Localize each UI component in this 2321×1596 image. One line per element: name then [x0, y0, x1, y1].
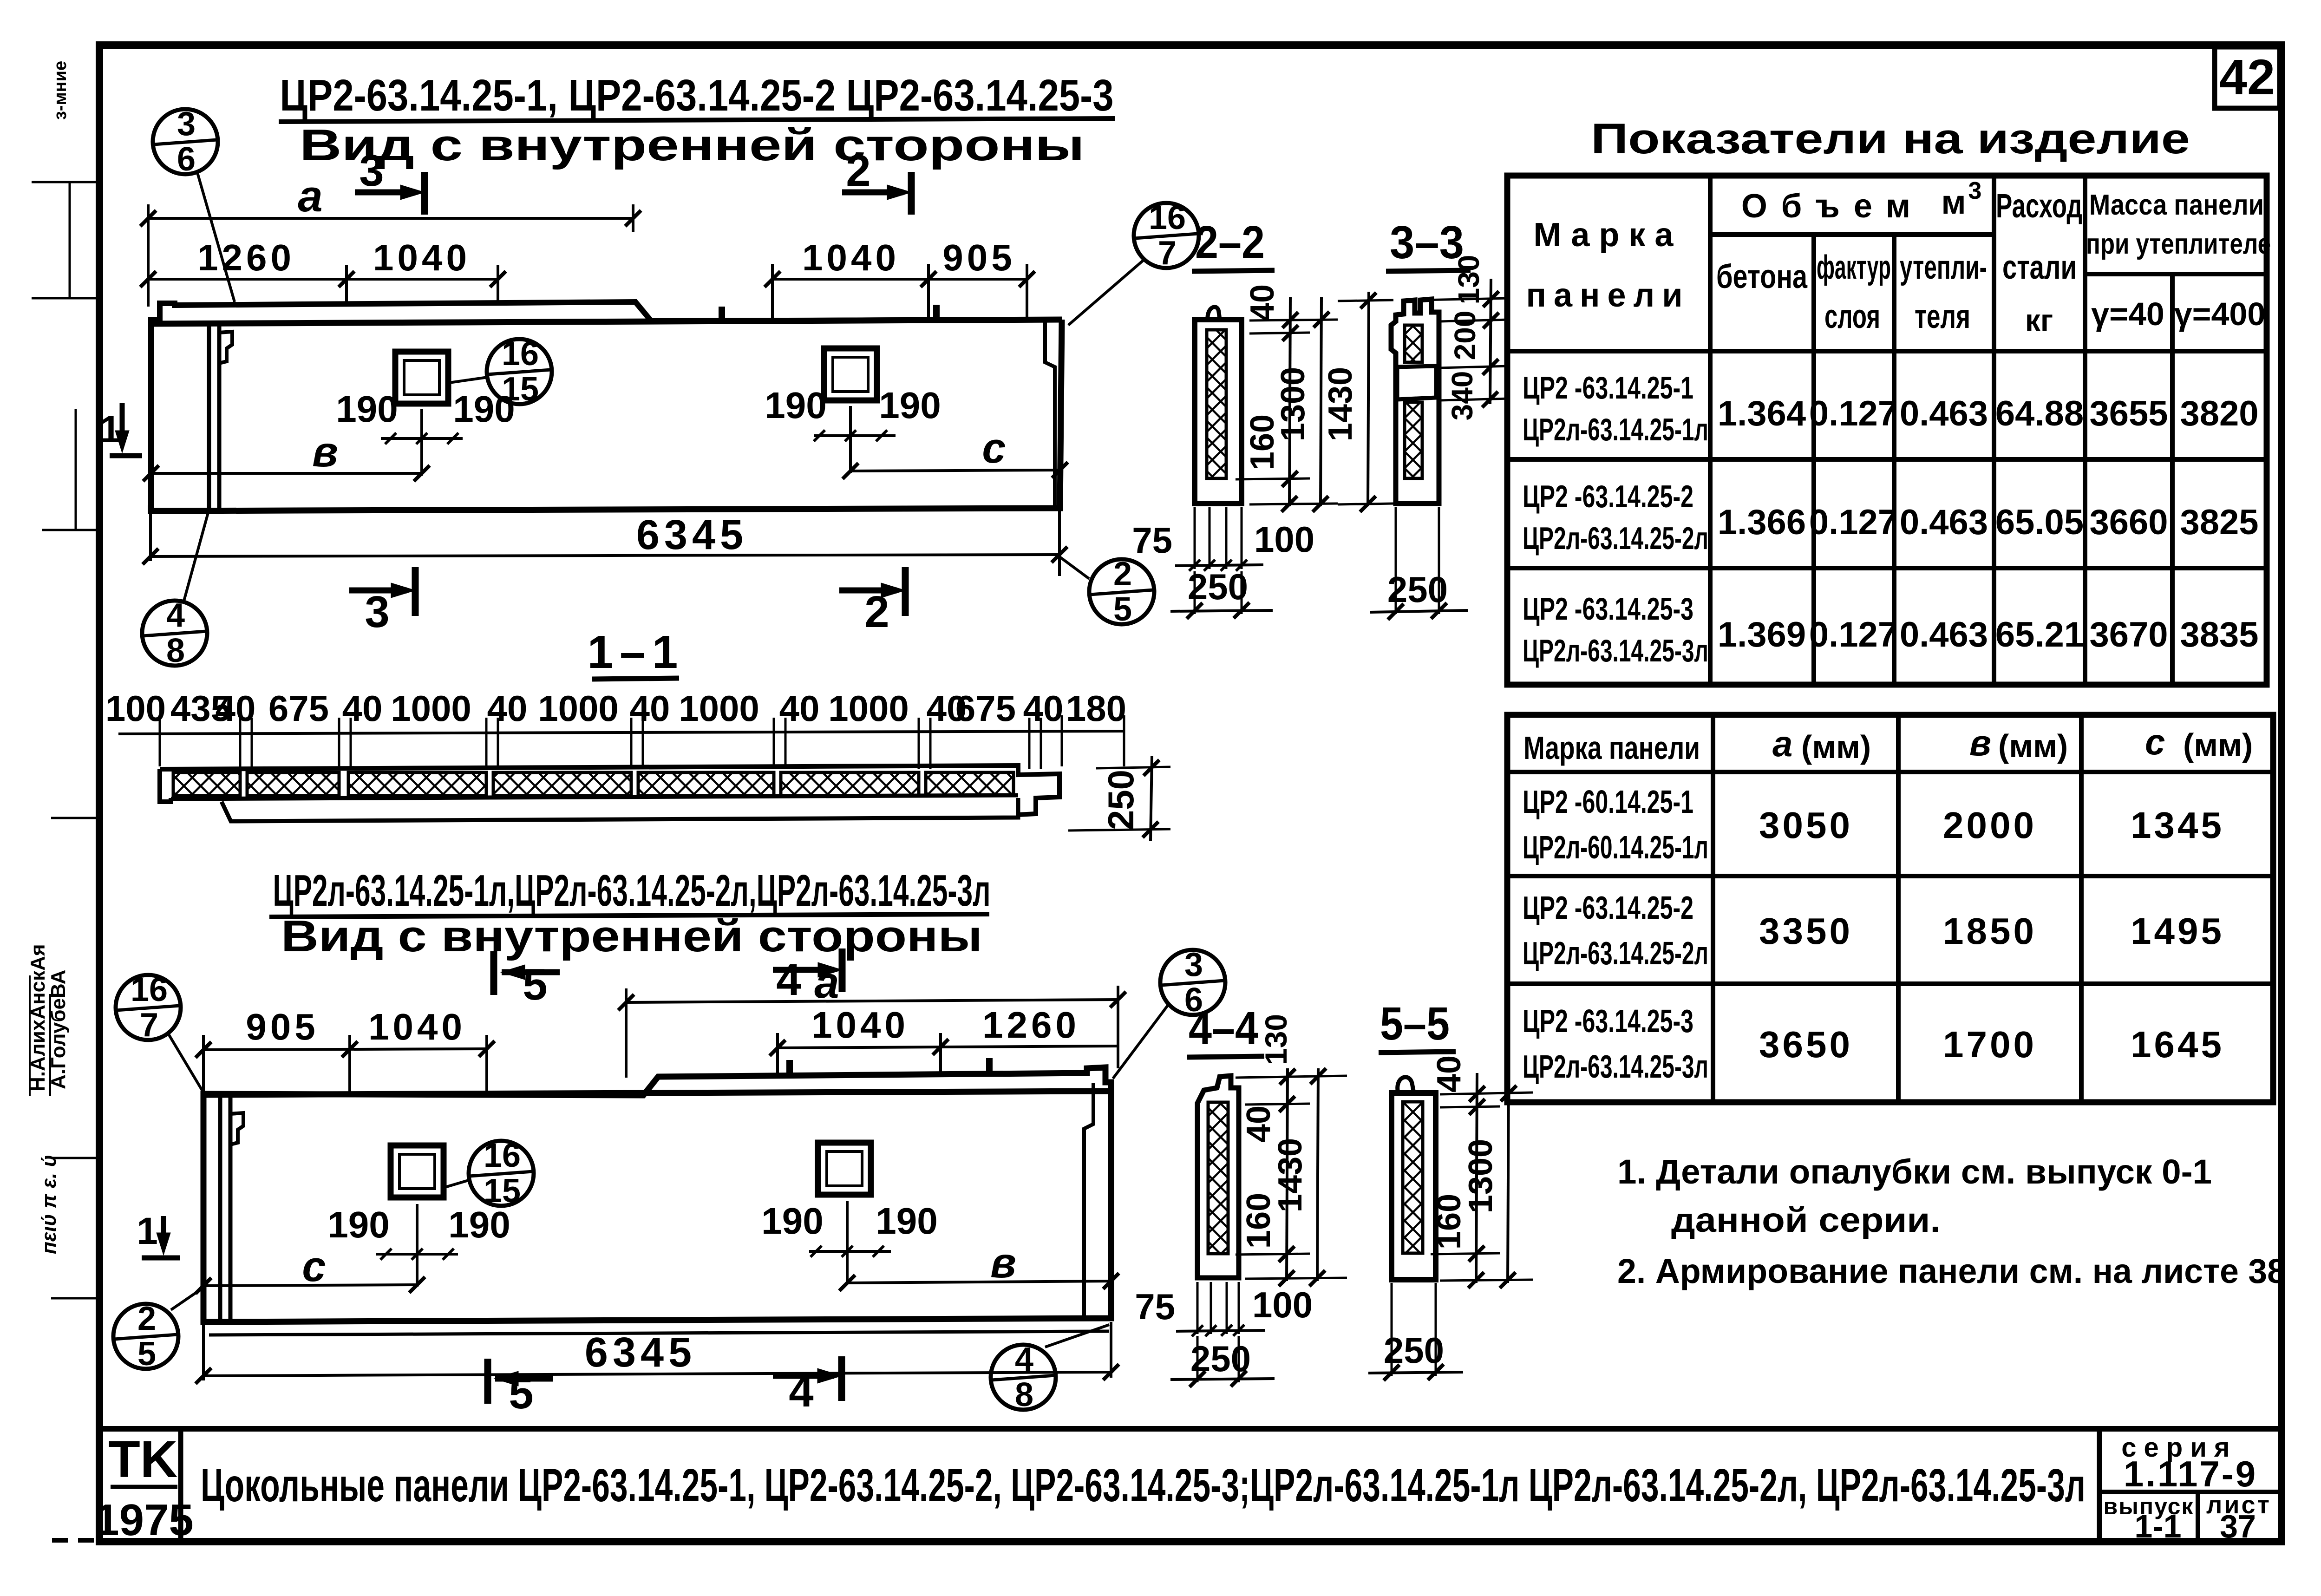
svg-text:1430: 1430: [1322, 367, 1359, 441]
svg-text:1975: 1975: [94, 1495, 194, 1545]
svg-text:2000: 2000: [1943, 805, 2037, 846]
svg-text:1.366: 1.366: [1718, 503, 1806, 542]
svg-text:ЦР2л-63.14.25-3л: ЦР2л-63.14.25-3л: [1523, 633, 1708, 668]
svg-text:40: 40: [1431, 1055, 1468, 1092]
svg-text:6: 6: [177, 141, 196, 178]
svg-text:1040: 1040: [373, 237, 471, 278]
svg-text:1300: 1300: [1462, 1139, 1499, 1213]
svg-text:75: 75: [1132, 520, 1172, 561]
svg-text:1040: 1040: [368, 1006, 466, 1047]
svg-text:бетона: бетона: [1716, 258, 1808, 295]
svg-text:37: 37: [2220, 1508, 2256, 1544]
svg-text:1850: 1850: [1943, 910, 2037, 952]
svg-text:1345: 1345: [2131, 805, 2224, 846]
svg-text:1040: 1040: [802, 237, 900, 278]
svg-text:с: с: [302, 1243, 326, 1290]
svg-text:γ=40: γ=40: [2091, 296, 2164, 332]
svg-text:Цокольные панели ЦР2-63.14.25-: Цокольные панели ЦР2-63.14.25-1, ЦР2-63.…: [201, 1459, 2086, 1511]
svg-text:ЦР2 -63.14.25-2: ЦР2 -63.14.25-2: [1523, 890, 1693, 926]
svg-text:42: 42: [2219, 49, 2275, 105]
svg-text:100: 100: [1252, 1284, 1313, 1325]
svg-text:фактур: фактур: [1817, 249, 1891, 286]
svg-text:4: 4: [1015, 1341, 1033, 1378]
svg-text:м: м: [1941, 184, 1966, 221]
svg-text:3660: 3660: [2089, 503, 2168, 542]
svg-text:5: 5: [509, 1368, 533, 1418]
svg-text:100: 100: [105, 688, 166, 729]
svg-text:ЦР2 -63.14.25-2: ЦР2 -63.14.25-2: [1523, 479, 1693, 514]
svg-text:65.05: 65.05: [1995, 503, 2084, 542]
svg-text:1000: 1000: [391, 688, 471, 729]
svg-text:3: 3: [365, 587, 389, 637]
svg-text:250: 250: [1188, 566, 1248, 607]
svg-text:Вид с внутренней стороны: Вид с внутренней стороны: [281, 911, 982, 961]
svg-text:1430: 1430: [1272, 1138, 1309, 1212]
svg-text:Показатели на изделие: Показатели на изделие: [1591, 115, 2190, 163]
svg-text:теля: теля: [1915, 298, 1970, 335]
svg-text:Марка панели: Марка панели: [1523, 730, 1700, 766]
svg-text:ЦР2л-63.14.25-2л: ЦР2л-63.14.25-2л: [1523, 521, 1708, 556]
svg-text:4–4: 4–4: [1189, 1002, 1258, 1054]
svg-text:ЦР2л-63.14.25-1л,ЦР2л-63.14.25: ЦР2л-63.14.25-1л,ЦР2л-63.14.25-2л,ЦР2л-6…: [273, 866, 991, 916]
svg-text:(мм): (мм): [1801, 729, 1871, 765]
svg-text:a: a: [1772, 723, 1792, 764]
svg-text:2. Армирование панели см. на л: 2. Армирование панели см. на листе 38: [1617, 1252, 2286, 1290]
svg-text:16: 16: [484, 1137, 521, 1174]
svg-text:190: 190: [448, 1204, 510, 1245]
svg-text:65.21: 65.21: [1995, 615, 2084, 654]
svg-text:200: 200: [1448, 311, 1482, 360]
svg-text:2: 2: [864, 587, 889, 637]
svg-text:3: 3: [1968, 177, 1982, 204]
svg-text:0.463: 0.463: [1900, 503, 1988, 542]
svg-text:2: 2: [137, 1300, 156, 1337]
svg-text:3: 3: [359, 146, 384, 196]
svg-text:(мм): (мм): [1998, 728, 2068, 764]
svg-text:16: 16: [502, 335, 539, 373]
svg-text:0.127: 0.127: [1809, 394, 1897, 433]
svg-text:250: 250: [1387, 569, 1448, 610]
svg-text:3825: 3825: [2180, 503, 2258, 542]
svg-text:3655: 3655: [2089, 394, 2168, 433]
svg-text:пειύ π ε. ύ: пειύ π ε. ύ: [38, 1155, 60, 1254]
svg-text:1000: 1000: [828, 688, 909, 729]
svg-text:75: 75: [1135, 1286, 1175, 1327]
svg-text:1700: 1700: [1943, 1024, 2037, 1065]
svg-text:a: a: [814, 958, 839, 1007]
svg-text:Объем: Объем: [1741, 188, 1924, 225]
svg-text:1.369: 1.369: [1718, 615, 1806, 654]
svg-text:16: 16: [1149, 199, 1186, 236]
svg-text:TK: TK: [108, 1430, 177, 1488]
svg-text:Масса панели: Масса панели: [2089, 189, 2264, 221]
svg-text:панели: панели: [1526, 277, 1690, 314]
svg-text:675: 675: [268, 688, 329, 729]
svg-text:190: 190: [336, 388, 398, 430]
svg-text:905: 905: [942, 237, 1015, 278]
svg-text:0.127: 0.127: [1809, 615, 1897, 654]
svg-text:15: 15: [484, 1172, 521, 1210]
svg-text:190: 190: [876, 1200, 937, 1242]
svg-text:при утеплителе: при утеплителе: [2086, 228, 2271, 260]
svg-text:в: в: [312, 428, 338, 476]
svg-text:1–1: 1–1: [588, 626, 685, 678]
svg-text:190: 190: [327, 1204, 389, 1245]
svg-text:1040: 1040: [811, 1004, 909, 1046]
svg-text:5–5: 5–5: [1380, 998, 1450, 1050]
svg-text:Вид с внутренней стороны: Вид с внутренней стороны: [300, 120, 1085, 170]
svg-text:3: 3: [1184, 946, 1203, 983]
svg-text:1645: 1645: [2131, 1024, 2224, 1065]
svg-text:190: 190: [879, 385, 941, 426]
svg-text:1000: 1000: [538, 688, 619, 729]
svg-text:5: 5: [523, 960, 547, 1009]
svg-text:3: 3: [177, 105, 196, 143]
svg-text:3050: 3050: [1759, 805, 1853, 846]
svg-text:1: 1: [99, 408, 121, 451]
svg-text:γ=400: γ=400: [2174, 296, 2266, 332]
svg-text:0.463: 0.463: [1900, 394, 1988, 433]
svg-text:з-мние: з-мние: [51, 61, 70, 120]
svg-text:190: 190: [761, 1200, 823, 1242]
svg-text:8: 8: [1015, 1376, 1033, 1413]
svg-text:3350: 3350: [1759, 910, 1853, 952]
svg-text:ЦР2 -60.14.25-1: ЦР2 -60.14.25-1: [1523, 784, 1693, 820]
svg-text:кг: кг: [2025, 303, 2053, 337]
svg-text:130: 130: [1452, 255, 1485, 305]
svg-text:6345: 6345: [585, 1329, 696, 1376]
svg-text:1.364: 1.364: [1718, 394, 1806, 433]
svg-text:40: 40: [342, 688, 383, 729]
svg-text:5: 5: [137, 1335, 156, 1373]
svg-text:40: 40: [1240, 1105, 1277, 1143]
svg-text:905: 905: [246, 1006, 319, 1047]
svg-text:40: 40: [216, 688, 256, 729]
svg-text:250: 250: [1100, 770, 1141, 830]
svg-text:4: 4: [789, 1367, 813, 1416]
svg-text:1-1: 1-1: [2134, 1508, 2181, 1544]
svg-text:0.463: 0.463: [1900, 615, 1988, 654]
svg-text:15: 15: [502, 371, 539, 408]
svg-text:130: 130: [1259, 1014, 1293, 1065]
svg-text:ЦР2л-63.14.25-1л: ЦР2л-63.14.25-1л: [1523, 412, 1708, 447]
svg-text:190: 190: [765, 385, 826, 426]
svg-text:3650: 3650: [1759, 1024, 1853, 1065]
svg-text:40: 40: [630, 688, 670, 729]
svg-text:3670: 3670: [2089, 615, 2168, 654]
svg-text:64.88: 64.88: [1995, 394, 2084, 433]
svg-text:5: 5: [1113, 591, 1132, 628]
svg-text:40: 40: [1244, 284, 1281, 321]
svg-text:2: 2: [1113, 556, 1132, 593]
svg-text:7: 7: [1158, 235, 1177, 272]
svg-text:3835: 3835: [2180, 615, 2258, 654]
svg-text:ЦР2л-63.14.25-3л: ЦР2л-63.14.25-3л: [1523, 1048, 1708, 1085]
svg-text:1.117-9: 1.117-9: [2124, 1453, 2257, 1494]
svg-text:7: 7: [140, 1007, 158, 1044]
svg-text:0.127: 0.127: [1809, 503, 1897, 542]
svg-text:1260: 1260: [197, 237, 295, 278]
svg-text:675: 675: [955, 688, 1016, 729]
svg-text:4: 4: [776, 955, 801, 1005]
svg-text:340: 340: [1445, 371, 1479, 421]
svg-text:1000: 1000: [679, 688, 759, 729]
svg-text:1: 1: [137, 1210, 158, 1252]
svg-text:ЦР2л-63.14.25-2л: ЦР2л-63.14.25-2л: [1523, 935, 1708, 971]
svg-text:2: 2: [846, 146, 870, 196]
svg-text:180: 180: [1066, 688, 1126, 729]
svg-text:ЦР2 -63.14.25-3: ЦР2 -63.14.25-3: [1523, 1003, 1693, 1039]
svg-text:3820: 3820: [2180, 394, 2258, 433]
svg-text:ЦР2-63.14.25-1, ЦР2-63.14.25-2: ЦР2-63.14.25-1, ЦР2-63.14.25-2 ЦР2-63.14…: [280, 71, 1114, 120]
svg-text:1. Детали опалубки см. выпуск: 1. Детали опалубки см. выпуск 0-1: [1617, 1152, 2212, 1191]
svg-text:данной серии.: данной серии.: [1671, 1201, 1941, 1239]
svg-text:ЦР2 -63.14.25-1: ЦР2 -63.14.25-1: [1523, 370, 1693, 406]
svg-text:Марка: Марка: [1534, 216, 1683, 254]
svg-text:1300: 1300: [1275, 367, 1312, 441]
svg-text:утепли-: утепли-: [1900, 249, 1987, 286]
svg-text:ЦР2 -63.14.25-3: ЦР2 -63.14.25-3: [1523, 591, 1693, 627]
svg-text:16: 16: [131, 971, 168, 1008]
svg-text:с: с: [982, 425, 1006, 472]
svg-text:100: 100: [1254, 519, 1314, 560]
svg-text:Расход: Расход: [1996, 188, 2082, 225]
svg-text:8: 8: [166, 632, 185, 669]
svg-text:6345: 6345: [636, 512, 748, 558]
svg-text:1260: 1260: [982, 1004, 1080, 1046]
svg-text:в: в: [1969, 722, 1991, 763]
svg-text:слоя: слоя: [1824, 298, 1880, 335]
svg-text:250: 250: [1384, 1330, 1444, 1371]
svg-text:4: 4: [166, 597, 185, 634]
svg-text:a: a: [298, 171, 322, 221]
svg-text:1495: 1495: [2131, 910, 2224, 952]
svg-text:2–2: 2–2: [1195, 216, 1265, 268]
svg-text:стали: стали: [2002, 249, 2077, 286]
svg-text:в: в: [990, 1239, 1016, 1287]
svg-text:ЦР2л-60.14.25-1л: ЦР2л-60.14.25-1л: [1523, 829, 1708, 865]
svg-text:с: с: [2145, 721, 2165, 762]
svg-text:(мм): (мм): [2183, 727, 2253, 763]
svg-text:40: 40: [487, 688, 528, 729]
svg-text:250: 250: [1190, 1338, 1251, 1379]
